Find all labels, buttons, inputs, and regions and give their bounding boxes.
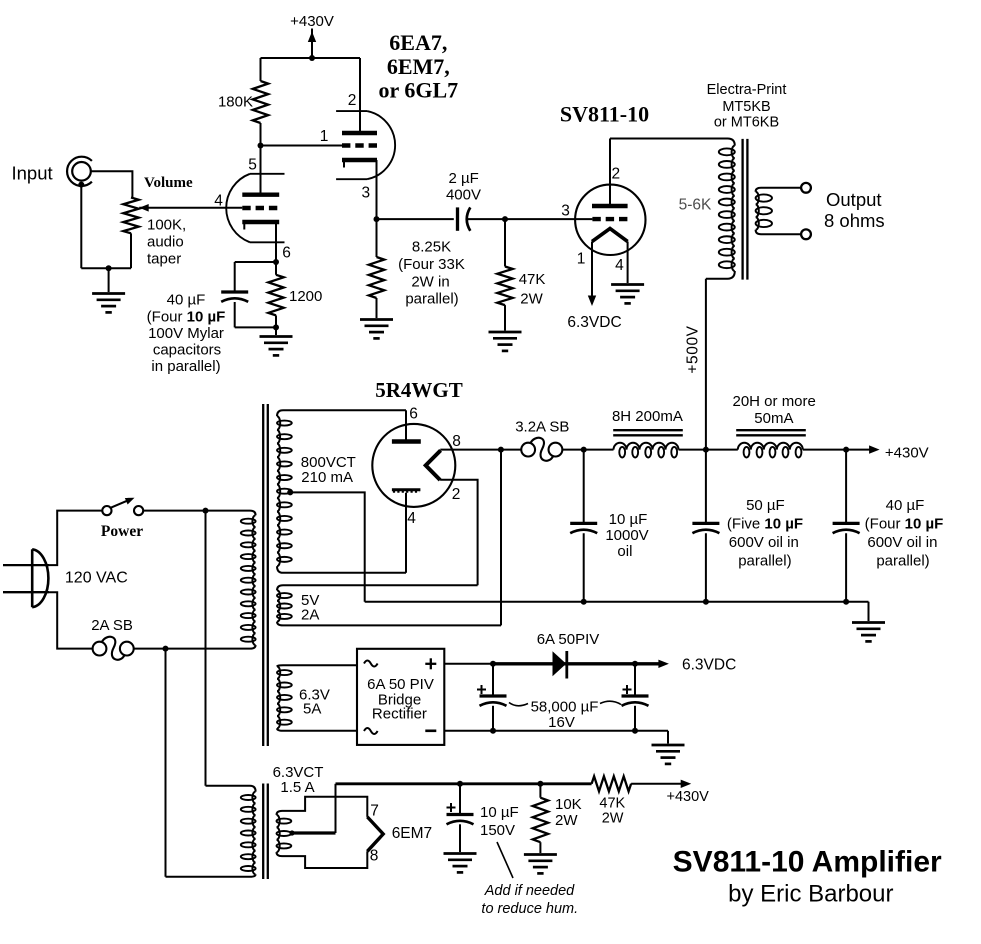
node C7 bottom bbox=[632, 728, 638, 734]
svg-text:10K: 10K bbox=[555, 796, 582, 813]
bridge AC mark bottom bbox=[364, 728, 378, 734]
capacitor C8 10uF 150V bbox=[459, 784, 461, 815]
transformer T2 secondary 5V bbox=[277, 590, 280, 621]
ground R4 bbox=[489, 331, 522, 334]
pointer line add if needed bbox=[497, 842, 513, 878]
squiggle right bbox=[600, 701, 621, 704]
input jack J1 bbox=[67, 157, 92, 186]
svg-text:oil: oil bbox=[617, 543, 632, 560]
tube V3 second anode pin 4 bbox=[392, 488, 421, 491]
wire 6.3VDC heavy bbox=[493, 662, 661, 665]
ground filter rail bbox=[852, 621, 885, 624]
svg-text:10 µF: 10 µF bbox=[609, 511, 648, 528]
switch S1 power bbox=[102, 506, 111, 515]
svg-text:5: 5 bbox=[248, 157, 257, 174]
svg-text:10 µF: 10 µF bbox=[480, 804, 519, 821]
bridge plus mark bbox=[425, 663, 436, 665]
ground V2 filament bbox=[611, 283, 644, 286]
svg-text:SV811-10 Amplifier: SV811-10 Amplifier bbox=[673, 846, 942, 879]
svg-text:in parallel): in parallel) bbox=[151, 358, 220, 375]
node C5 ground bbox=[843, 599, 849, 605]
svg-text:or 6GL7: or 6GL7 bbox=[378, 78, 458, 103]
fuse F1 2A SB bbox=[93, 642, 107, 656]
wire pin 2 to 5V winding bbox=[440, 480, 478, 585]
svg-text:(Four 10 µF: (Four 10 µF bbox=[865, 516, 944, 533]
svg-text:5A: 5A bbox=[303, 701, 321, 718]
choke L1 8H 200mA bbox=[614, 443, 679, 450]
node input ground junction bbox=[106, 265, 112, 271]
wire filament pin 4 to ground bbox=[627, 242, 629, 284]
node second cap top bbox=[632, 661, 638, 667]
svg-text:600V oil in: 600V oil in bbox=[867, 534, 937, 551]
svg-text:2A: 2A bbox=[301, 607, 319, 624]
wire V3 plate lead bbox=[405, 410, 407, 441]
svg-text:6: 6 bbox=[409, 406, 418, 423]
ground C8 bbox=[444, 852, 477, 855]
node top rail junction bbox=[309, 55, 315, 61]
wire to +430V arrow bbox=[803, 449, 872, 451]
squiggle left bbox=[509, 703, 528, 706]
node jack tip wire bbox=[91, 171, 133, 197]
wire 6.3V bottom lead bbox=[277, 728, 357, 730]
svg-text:audio: audio bbox=[147, 234, 184, 251]
svg-text:600V oil in: 600V oil in bbox=[729, 534, 799, 551]
transformer T3 core bbox=[262, 784, 264, 880]
node last filter cap bbox=[843, 447, 849, 453]
wire V1b cathode pin 3 bbox=[376, 160, 378, 219]
wire minus rail to ground bbox=[667, 731, 669, 744]
svg-text:20H or more: 20H or more bbox=[733, 393, 816, 410]
svg-text:(Five 10 µF: (Five 10 µF bbox=[727, 516, 803, 533]
svg-text:8: 8 bbox=[452, 433, 461, 450]
wire switched line down to T3 bbox=[205, 511, 207, 786]
svg-text:Input: Input bbox=[12, 163, 53, 184]
svg-text:210 mA: 210 mA bbox=[301, 469, 353, 486]
wire bridge minus rail bbox=[444, 730, 668, 732]
ground 6.3VDC supply bbox=[652, 744, 685, 747]
svg-text:100K,: 100K, bbox=[147, 217, 186, 234]
tube V2 SV811-10 envelope bbox=[575, 185, 645, 255]
svg-text:2W: 2W bbox=[602, 811, 624, 827]
svg-text:58,000 µF: 58,000 µF bbox=[531, 698, 599, 715]
rectifier bridge box bbox=[357, 649, 444, 745]
transformer T3 secondary winding bbox=[277, 815, 280, 852]
capacitor C6 58000uF first bbox=[492, 664, 494, 696]
svg-text:4: 4 bbox=[615, 257, 624, 274]
svg-text:2W: 2W bbox=[555, 812, 578, 829]
svg-text:8 ohms: 8 ohms bbox=[824, 210, 885, 231]
capacitor C4 50uF bbox=[705, 450, 707, 524]
node first filter cap bbox=[581, 447, 587, 453]
svg-text:Add if needed: Add if needed bbox=[484, 883, 575, 899]
wire 5V bottom lead bbox=[277, 622, 501, 626]
svg-text:capacitors: capacitors bbox=[153, 342, 221, 359]
svg-text:Electra-Print: Electra-Print bbox=[707, 82, 787, 98]
wire plug hot to switch bbox=[49, 511, 102, 565]
svg-text:5R4WGT: 5R4WGT bbox=[375, 378, 463, 402]
wire to SV811 grid pin 3 bbox=[505, 218, 592, 220]
node neutral junction bbox=[163, 646, 169, 652]
wire cap to grid node bbox=[467, 218, 505, 220]
choke L1 core bbox=[613, 429, 683, 431]
choke L2 20H bbox=[738, 443, 803, 450]
svg-text:Output: Output bbox=[826, 189, 882, 210]
capacitor C3 10uF 1000V oil bbox=[583, 450, 585, 524]
svg-text:1: 1 bbox=[320, 128, 329, 145]
svg-text:6A 50 PIV: 6A 50 PIV bbox=[367, 676, 434, 693]
wire to +430V bottom arrow bbox=[631, 783, 683, 785]
svg-text:2: 2 bbox=[611, 166, 620, 183]
transformer T1 primary winding bbox=[732, 146, 735, 271]
wire to V1b grid pin 1 bbox=[261, 145, 343, 147]
resistor R2 1200 cathode bbox=[275, 262, 277, 275]
svg-text:2W: 2W bbox=[520, 291, 543, 308]
node jack sleeve bbox=[78, 182, 84, 188]
wire pin 8 to rail bbox=[440, 449, 521, 451]
svg-text:parallel): parallel) bbox=[738, 553, 791, 570]
svg-text:40 µF: 40 µF bbox=[886, 497, 925, 514]
capacitor C2 2uF 400V coupling bbox=[456, 207, 459, 230]
tube V1b grid bbox=[342, 143, 377, 147]
svg-text:180K: 180K bbox=[218, 94, 253, 111]
svg-text:by Eric Barbour: by Eric Barbour bbox=[728, 881, 893, 908]
tube V1b plate bbox=[342, 131, 377, 135]
wire cathode to bypass cap bbox=[235, 261, 276, 263]
svg-text:400V: 400V bbox=[446, 187, 481, 204]
wire neutral down to T3 bbox=[165, 649, 167, 877]
wire center tap riser bbox=[335, 784, 337, 833]
svg-text:6EM7: 6EM7 bbox=[392, 825, 433, 842]
tube V3 5R4WGT envelope bbox=[372, 424, 455, 507]
capacitor C1 40uF cathode bypass bbox=[234, 262, 236, 292]
transformer T2 secondary 800VCT bbox=[277, 416, 280, 566]
transformer T2 core bbox=[262, 404, 264, 746]
wire rail to ground bbox=[868, 602, 870, 621]
node C3 ground bbox=[581, 599, 587, 605]
wire top rail bbox=[261, 57, 361, 59]
svg-text:parallel): parallel) bbox=[876, 553, 929, 570]
svg-text:100V Mylar: 100V Mylar bbox=[148, 325, 224, 342]
node switched line junction bbox=[203, 508, 209, 514]
tube V2 grid bbox=[592, 217, 627, 221]
svg-text:8: 8 bbox=[370, 848, 379, 865]
svg-text:2: 2 bbox=[348, 92, 357, 109]
svg-text:8.25K: 8.25K bbox=[412, 239, 451, 256]
node 10K junction bbox=[537, 781, 543, 787]
wire input ground bus bbox=[81, 267, 131, 269]
svg-text:120 VAC: 120 VAC bbox=[65, 570, 128, 587]
terminal output bottom bbox=[801, 229, 811, 239]
svg-text:1: 1 bbox=[577, 251, 586, 268]
svg-text:6.3VDC: 6.3VDC bbox=[682, 656, 736, 673]
node V1a cathode junction bbox=[273, 259, 279, 265]
wire V2 plate pin 2 bbox=[609, 139, 611, 207]
choke L2 core bbox=[736, 429, 806, 431]
resistor R6 47K 2W bbox=[592, 776, 632, 791]
capacitor C7 58000uF second bbox=[634, 664, 636, 696]
svg-text:6: 6 bbox=[282, 245, 291, 262]
arrow +430V up bbox=[311, 29, 313, 59]
wire secondary top lead bbox=[756, 188, 802, 192]
wire 800VCT top lead bbox=[283, 409, 406, 411]
svg-text:Power: Power bbox=[101, 523, 143, 540]
node bias cap junction bbox=[457, 781, 463, 787]
svg-text:MT5KB: MT5KB bbox=[722, 99, 770, 115]
tube V3 filament chevron bbox=[426, 450, 441, 480]
svg-text:50 µF: 50 µF bbox=[746, 497, 785, 514]
wire wiper to V1a grid bbox=[139, 207, 242, 209]
tube 6EM7 heater chevron bbox=[367, 817, 383, 851]
bridge AC mark top bbox=[364, 661, 378, 667]
wire filter ground rail bbox=[365, 601, 869, 603]
svg-text:16V: 16V bbox=[548, 714, 575, 731]
svg-text:to reduce hum.: to reduce hum. bbox=[481, 901, 578, 917]
tube V2 plate bbox=[592, 204, 628, 208]
terminal output top bbox=[801, 183, 811, 193]
svg-text:6EM7,: 6EM7, bbox=[387, 54, 450, 79]
tube V2 filament bbox=[592, 229, 628, 242]
tube V1a envelope bbox=[250, 173, 285, 175]
svg-text:150V: 150V bbox=[480, 822, 515, 839]
wire +500V line bbox=[705, 279, 707, 450]
svg-text:Volume: Volume bbox=[144, 175, 193, 191]
resistor R4 47K 2W grid leak bbox=[504, 219, 506, 266]
node SV811 grid junction bbox=[502, 216, 508, 222]
svg-text:7: 7 bbox=[370, 802, 379, 819]
tube V1a cathode bbox=[242, 220, 279, 224]
node cathode ground junction bbox=[273, 324, 279, 330]
wire bypass bottom bbox=[235, 326, 276, 328]
node 800VCT center tap bbox=[287, 489, 293, 495]
svg-text:parallel): parallel) bbox=[405, 291, 458, 308]
svg-text:2: 2 bbox=[452, 486, 461, 503]
svg-text:1.5 A: 1.5 A bbox=[280, 779, 314, 796]
svg-text:2 µF: 2 µF bbox=[449, 170, 479, 187]
svg-text:+430V: +430V bbox=[667, 789, 710, 805]
svg-text:or MT6KB: or MT6KB bbox=[714, 115, 779, 131]
wire center tap to ground rail bbox=[290, 492, 365, 601]
svg-text:(Four 33K: (Four 33K bbox=[398, 256, 465, 273]
wire to input ground bbox=[108, 268, 110, 292]
svg-text:(Four 10 µF: (Four 10 µF bbox=[147, 309, 226, 326]
node V1b cathode junction bbox=[374, 216, 380, 222]
wire center tap thick bbox=[291, 831, 336, 834]
ground input bbox=[92, 292, 125, 295]
svg-text:+500V: +500V bbox=[685, 325, 702, 373]
node first 58000uF cap top bbox=[490, 661, 496, 667]
wire choke to node bbox=[679, 449, 738, 451]
ground V1a cathode bbox=[260, 335, 293, 338]
svg-text:6A 50PIV: 6A 50PIV bbox=[537, 631, 600, 648]
svg-text:+430V: +430V bbox=[290, 13, 334, 30]
svg-text:6.3VDC: 6.3VDC bbox=[567, 314, 621, 331]
resistor R3 8.25K bbox=[376, 219, 378, 257]
svg-text:4: 4 bbox=[407, 510, 416, 527]
plug 120VAC bbox=[31, 549, 34, 607]
transformer T1 secondary winding bbox=[756, 192, 759, 230]
capacitor C5 40uF bbox=[845, 450, 847, 524]
wiper arrow R1 bbox=[139, 204, 149, 212]
tube V1a grid bbox=[242, 206, 279, 210]
potentiometer R1 volume 100K bbox=[123, 198, 138, 234]
tube V3 plate pin 6 bbox=[392, 439, 421, 443]
node C4 ground bbox=[703, 599, 709, 605]
wire fuse to choke bbox=[563, 449, 614, 451]
svg-text:taper: taper bbox=[147, 251, 181, 268]
svg-text:1000V: 1000V bbox=[605, 527, 648, 544]
tube V1b cathode bbox=[342, 158, 377, 162]
transformer T3 primary winding bbox=[250, 786, 256, 792]
wire V1b plate pin 2 bbox=[359, 58, 361, 133]
wire plug neutral to fuse bbox=[49, 592, 93, 648]
transformer T2 primary winding bbox=[250, 511, 256, 516]
wire 800VCT bottom lead bbox=[277, 566, 406, 573]
node rectifier output bbox=[498, 447, 504, 453]
wire secondary bottom lead bbox=[756, 230, 802, 235]
wire V1a cathode pin 6 bbox=[275, 222, 277, 262]
wire fuse to primary bbox=[134, 648, 250, 650]
svg-text:3: 3 bbox=[361, 185, 370, 202]
wire jack ground bbox=[80, 185, 82, 269]
wire V3 pin 4 lead bbox=[405, 493, 407, 573]
wire switch to primary bbox=[143, 510, 250, 512]
node V1a plate / V1b grid bbox=[258, 143, 264, 149]
svg-text:SV811-10: SV811-10 bbox=[560, 101, 649, 126]
ground R3 bbox=[360, 318, 393, 321]
svg-text:1200: 1200 bbox=[289, 288, 322, 305]
wire filament pin 1 to 6.3VDC bbox=[591, 242, 593, 299]
svg-text:8H 200mA: 8H 200mA bbox=[612, 408, 683, 425]
wire to coupling cap bbox=[377, 218, 454, 220]
tube V1a plate bbox=[242, 192, 279, 196]
wire bridge plus output bbox=[444, 663, 493, 665]
wire OT primary bottom lead bbox=[706, 271, 735, 279]
transformer T2 secondary 6.3V bbox=[277, 666, 280, 728]
svg-text:47K: 47K bbox=[599, 796, 625, 812]
fuse F2 3.2A SB bbox=[521, 443, 535, 457]
node 500V junction bbox=[703, 447, 709, 453]
wire 5V top lead bbox=[277, 585, 478, 590]
svg-text:3: 3 bbox=[561, 203, 570, 220]
wire T3 secondary bottom lead to pin 8 bbox=[277, 851, 368, 868]
svg-text:47K: 47K bbox=[519, 271, 546, 288]
wire T3 secondary top lead to pin 7 bbox=[277, 797, 368, 817]
node T3 center tap bbox=[289, 830, 294, 835]
svg-text:5-6K: 5-6K bbox=[679, 197, 712, 214]
svg-text:4: 4 bbox=[214, 193, 223, 210]
wire 6.3V top lead bbox=[277, 665, 357, 666]
wire heater bias rail bbox=[336, 782, 592, 785]
svg-text:Rectifier: Rectifier bbox=[372, 705, 427, 722]
svg-text:50mA: 50mA bbox=[754, 410, 793, 427]
wire V1a plate pin 5 bbox=[260, 146, 262, 195]
svg-text:40 µF: 40 µF bbox=[167, 292, 206, 309]
svg-text:3.2A SB: 3.2A SB bbox=[515, 419, 569, 436]
svg-text:2A SB: 2A SB bbox=[91, 617, 133, 634]
diode D1 6A 50PIV bbox=[553, 651, 567, 676]
bridge minus mark bbox=[425, 729, 436, 732]
resistor 180K plate load bbox=[260, 58, 262, 81]
ground R5 bbox=[524, 853, 557, 856]
tube V1b envelope bbox=[336, 110, 367, 112]
wire plate to OT primary bbox=[610, 138, 728, 140]
resistor R5 10K 2W bbox=[539, 784, 541, 798]
transformer T1 core bbox=[741, 139, 743, 280]
node C6 bottom bbox=[490, 728, 496, 734]
svg-text:+430V: +430V bbox=[885, 444, 929, 461]
svg-text:2W in: 2W in bbox=[411, 274, 449, 291]
svg-text:6EA7,: 6EA7, bbox=[389, 30, 447, 55]
